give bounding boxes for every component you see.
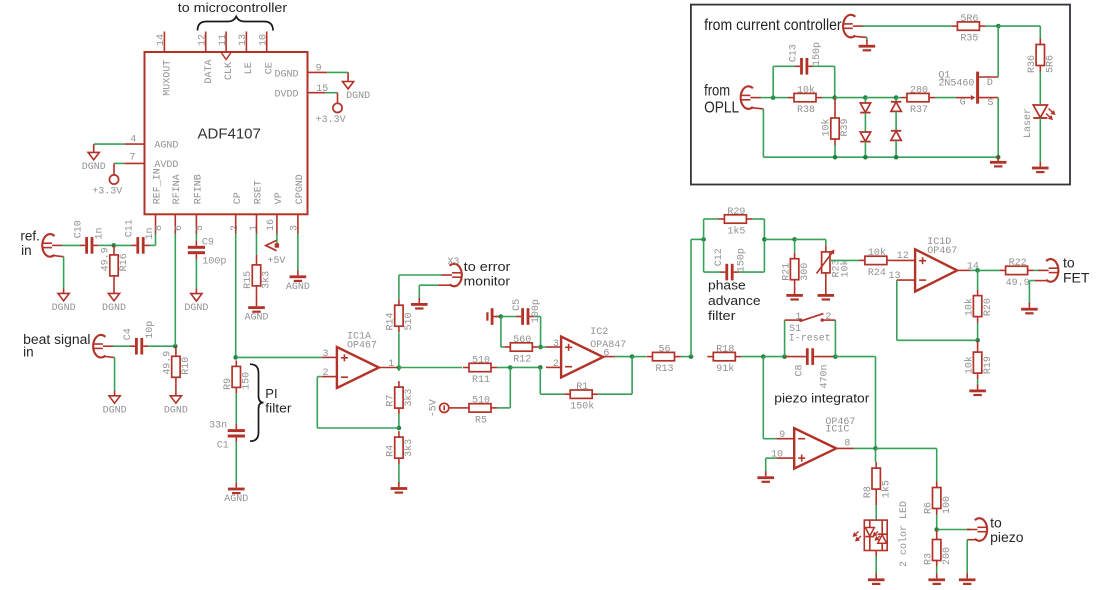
wire d2 bot [895,141,897,158]
annotation PI [265,386,277,401]
svg-text:R3: R3 [923,553,934,565]
wire laser col down [1039,26,1041,38]
transistor Q1 source lead [979,97,998,99]
lead to C8 [785,356,802,358]
wire d2a top [895,98,897,102]
svg-text:510: 510 [404,312,415,330]
svg-text:C11: C11 [125,219,136,237]
svg-text:DGND: DGND [102,303,126,314]
svg-text:5R6: 5R6 [1046,55,1057,73]
IC U1 pin label AGND [154,141,178,152]
svg-text:3: 3 [553,339,559,350]
wire R18 to C8 node [741,356,763,358]
resistor R11 [463,355,497,386]
label C8 [795,364,806,376]
wire beat node up to pin 6 [174,234,176,347]
value 100p of C5 [531,299,542,323]
IC U1 pin number 10 [259,34,270,46]
resistor R23 potentiometer [822,246,830,279]
svg-text:9: 9 [779,430,785,441]
value 100p of C9 [202,256,226,267]
wire beat shield to DGND [114,358,116,392]
IC U1 pin label CLK [224,62,235,80]
wire IC1C out [854,447,876,449]
ground AGND FET shield [1021,303,1038,315]
wire R20 to node [977,323,979,341]
resistor R39 [821,112,852,145]
resistor R1 [564,382,598,413]
svg-text:G: G [960,98,966,109]
svg-text:R21: R21 [781,263,792,281]
svg-text:MUXOUT: MUXOUT [163,60,174,96]
annotation to microcontroller [178,0,288,15]
pin label S [988,98,994,109]
wire C8 right to out column [835,356,875,358]
resistor R4 [386,431,416,464]
wire node to IC2 pin3 [541,346,546,348]
wire to diode string 2 [865,97,896,99]
lead R15 to AGND [256,292,258,302]
svg-text:R37: R37 [910,105,928,116]
wire R6 to piezo node [936,515,938,530]
svg-text:R35: R35 [960,34,978,45]
annotation ref. [20,229,40,244]
IC U1 pin number 5 [195,225,206,231]
label C5 [512,299,523,311]
IC U1 pin number 14 [156,34,167,46]
svg-text:-5V: -5V [429,399,440,417]
wire out column down [875,357,877,449]
wire R13 to node [681,356,692,358]
ground DGND below R16 [102,288,126,314]
wire R4 to AGND [398,464,400,483]
wire d1 bot [864,142,866,157]
op-amp IC2 output stub [602,356,614,358]
wire C12 left down [703,239,705,272]
wire cc shield down [866,37,868,41]
LED D1 right diode [878,520,887,550]
value 10k of R23 [840,259,852,277]
laser diode LD1 [1033,105,1047,118]
svg-text:DGND: DGND [103,405,127,416]
svg-text:10k: 10k [868,247,886,259]
wire C5 corner down [540,317,542,348]
IC U1 pin number 4 [130,135,136,146]
resistor R5 [463,396,497,427]
label 2N5460 [938,79,974,90]
svg-text:3: 3 [290,225,301,231]
wire LED gnd [875,556,877,575]
IC U1 pin label CE [265,62,276,74]
svg-text:6: 6 [174,225,185,231]
svg-text:R19: R19 [983,356,994,374]
switch S1 [785,314,836,322]
svg-text:RFINB: RFINB [193,174,204,204]
op-amp IC1D pin number 14 [967,261,979,272]
svg-text:filter: filter [708,308,736,323]
svg-text:10p: 10p [145,321,156,339]
ground DGND at pin 9 [343,77,371,103]
wire fb to R1 [540,393,564,395]
wire bottom rail [763,156,998,158]
junction IC1D out node [975,268,980,273]
annotation phase [708,277,746,292]
svg-text:10k: 10k [797,84,815,96]
wire pin16 to +5V [276,234,278,246]
svg-text:piezo integrator: piezo integrator [774,391,870,406]
op-amp IC1A pin number 1 [388,359,394,370]
IC U1 pin label REF_IN [152,168,163,204]
wire C9 to DGND [195,259,197,289]
label +3.3V left [92,187,122,198]
wire to LED box [875,505,877,520]
op-amp IC1D output stub [957,269,970,271]
svg-text:DGND: DGND [82,162,106,173]
wire laser to gnd [1039,118,1041,163]
diode D4 string2 bottom [891,131,901,141]
IC U1 pin label VP [274,192,285,204]
wire fb up [316,377,318,428]
IC U1 pin 9 stub [308,71,328,73]
resistor R14 [386,299,416,332]
op-amp IC1C output stub [837,447,854,449]
resistor R36 [1027,39,1057,74]
wire R5 to corner [497,407,510,409]
svg-text:DGND: DGND [346,91,370,102]
ground AGND piezo shield [959,573,976,585]
connector from OPLL [741,86,764,109]
svg-text:1n: 1n [95,227,106,239]
svg-text:1k5: 1k5 [727,225,745,237]
capacitor C1 [228,424,245,442]
svg-text:AGND: AGND [244,313,268,324]
lead node to R19 [977,340,979,346]
capacitor C9 [188,241,205,259]
svg-text:510: 510 [472,355,490,366]
svg-text:X3: X3 [448,257,460,268]
svg-text:R4: R4 [386,445,397,457]
resistor R7 [386,381,416,414]
IC U1 pin label CP [233,192,244,204]
ground AGND rail [990,156,1007,168]
resistor R18 [707,344,741,375]
wire ref-in to C10 [62,244,82,246]
annotation to piezo line2 [990,529,1024,545]
wire R36 to laser [1039,72,1041,105]
capacitor C10 [80,237,98,254]
svg-text:DVDD: DVDD [274,90,298,101]
lead to R15 [256,255,258,259]
wire C13 right [813,65,835,67]
svg-text:1: 1 [795,312,801,323]
svg-text:5: 5 [195,225,206,231]
svg-text:filter: filter [265,401,292,416]
svg-text:advance: advance [708,293,761,308]
wire out to R7 [398,368,400,372]
svg-text:300: 300 [800,263,811,281]
supply -5V [440,403,449,412]
lead node to R39 [834,98,836,113]
capacitor C4 [130,338,148,355]
junction C5-gnd node [499,314,504,319]
svg-text:OP467: OP467 [927,246,957,257]
annotation to FET line2 [1063,269,1090,285]
svg-text:C1: C1 [217,440,229,451]
ground AGND below R23 [818,289,835,301]
label I-reset [789,334,831,345]
op-amp IC1C pin number 9 [779,430,785,441]
ground DGND at pin 4 [82,147,106,173]
wire R14 up to X3 row [398,275,400,299]
wire R23 down [825,239,827,246]
wire phase row left [691,238,704,240]
annotation from OPLL line2 [704,100,739,117]
svg-text:CPGND: CPGND [295,174,306,204]
wire C12 left [704,271,721,273]
svg-text:R5: R5 [475,415,487,426]
junction ref node [112,243,117,248]
label X3 [448,257,460,268]
switch S1 pin 2 [825,312,831,323]
svg-text:2: 2 [553,359,559,370]
label R23 [832,259,843,277]
ground AGND at pin 3 [286,270,310,293]
lead R21 to AGND [794,286,796,290]
op-amp IC1D pin number 13 [889,271,901,282]
connector beat in [93,335,114,358]
resistor R13 [647,344,681,375]
value 470n of C8 [819,364,830,388]
svg-text:150p: 150p [736,248,747,272]
label C11 [125,219,136,237]
svg-text:13: 13 [238,34,249,46]
ground AGND X3 shield [411,298,428,310]
wire fb left [317,427,399,429]
svg-text:C13: C13 [788,44,799,62]
annotation to piezo line1 [990,514,1002,530]
svg-text:AGND: AGND [224,494,248,505]
svg-text:100p: 100p [202,256,226,267]
svg-text:C10: C10 [74,220,85,238]
wire d2 mid [895,112,897,131]
svg-text:C4: C4 [123,328,134,340]
lead node to R16 [113,245,115,249]
label +5V [267,256,285,267]
IC U1 pin number 3 [290,225,301,231]
ground AGND cc shield [859,40,876,52]
IC U1 pin number 11 [218,34,229,46]
svg-text:R8: R8 [863,486,874,498]
ground AGND below R4 [391,482,408,494]
svg-text:2 color LED: 2 color LED [898,501,910,567]
label -5V [429,399,440,417]
junction piezo node [934,527,939,532]
IC U1 pin number 16 [266,219,277,231]
svg-text:10k: 10k [821,118,833,136]
svg-text:Laser: Laser [1023,108,1034,138]
wire pin15 to +3.3V [325,92,337,94]
svg-text:R1: R1 [576,382,588,393]
svg-text:REF_IN: REF_IN [152,168,163,204]
IC U1 pin number 7 [130,152,136,163]
label C9 [202,237,214,248]
IC U1 bottom pin stub [195,214,197,234]
junction OPLL node [771,95,776,100]
ground AGND left of C5 [486,308,498,325]
svg-text:6: 6 [603,349,609,360]
wire R21 down [794,239,796,252]
wire IC1A out to R11 [399,367,462,369]
svg-text:R11: R11 [472,375,490,386]
wire C10 to node [98,244,114,246]
IC U1 bottom pin stub [256,214,258,234]
lead node to R10 [175,346,177,351]
diode D3 string2 top [891,102,901,112]
IC U1 ADF4107 body [145,52,308,214]
junction IC1A output node [397,365,402,370]
svg-text:91k: 91k [716,363,734,375]
svg-text:AGND: AGND [286,282,310,293]
capacitor C11 [132,237,150,254]
transistor Q1 2N5460 gate arrow [956,95,975,100]
value 150p of C13 [812,42,823,66]
svg-text:2N5460: 2N5460 [938,79,974,90]
transistor Q1 drain lead [979,76,998,78]
IC U1 pin label AVDD [154,160,178,171]
svg-text:1: 1 [249,225,260,231]
svg-text:10k: 10k [840,259,852,277]
svg-text:DGND: DGND [52,303,76,314]
wire out right [876,447,937,449]
svg-text:C8: C8 [795,364,806,376]
svg-text:RSET: RSET [254,180,265,204]
op-amp IC1A pin 3 stub [322,356,337,358]
wire pin10 gnd down [765,458,767,472]
annotation in line2 [23,345,34,360]
ground DGND ref shield [52,288,76,314]
wire phase row mid [764,238,794,240]
annotation from current controller [704,17,842,34]
svg-text:R22: R22 [1009,258,1027,269]
op-amp IC1C pin 9 stub [777,438,795,440]
IC U1 pin number 12 [198,34,209,46]
lead R24 to IC1D [893,259,915,261]
wire OPLL shield down [762,109,764,157]
svg-text:10: 10 [259,34,270,46]
capacitor C12 [721,264,739,281]
lead R16 to DGND [113,282,115,289]
resistor R3 [923,534,953,567]
svg-text:3: 3 [323,349,329,360]
op-amp IC1D pin number 12 [897,251,909,262]
label C13 [788,44,799,62]
wire S1 right up [834,320,836,357]
wire R37 to gate [935,97,956,99]
svg-text:510: 510 [472,396,490,407]
svg-text:49.9: 49.9 [101,247,112,271]
IC U1 pin 4 stub [125,143,145,145]
brace PI filter [250,364,264,441]
junction IC2 out node [630,354,635,359]
svg-text:DGND: DGND [164,405,188,416]
wire X3 shield down [418,285,420,299]
IC U1 pin label RFINB [193,174,204,204]
label C12 [714,248,725,266]
IC U1 pin 12 stub [205,32,207,53]
svg-text:10: 10 [771,450,783,461]
wire FET shield down [1028,281,1030,304]
label S1 [789,324,801,335]
junction R38-R39 node [832,95,837,100]
svg-text:IC1C: IC1C [825,425,849,436]
resistor R21 [781,253,811,286]
junction R21 top [792,237,797,242]
svg-text:to: to [1063,255,1075,271]
svg-text:monitor: monitor [464,274,511,289]
resistor R8 [863,462,893,498]
connector to piezo [967,518,987,541]
svg-text:3k3: 3k3 [403,389,415,407]
svg-text:PI: PI [265,386,277,401]
capacitor C8 [801,348,819,365]
wire beat to C4 [113,345,131,347]
wire pin10 across [766,457,777,459]
transistor Q1 channel bar [976,72,979,104]
op-amp IC1D OP467 [915,237,957,292]
label C4 [123,328,134,340]
svg-text:470n: 470n [819,364,830,388]
svg-text:5R6: 5R6 [960,14,978,25]
wire up to pin 8 [155,234,157,246]
IC U1 bottom pin stub [174,214,176,234]
supply +3.3V left [109,175,118,184]
svg-text:4: 4 [130,135,136,146]
wire C1 to AGND [235,442,237,483]
wire pin9 drop [762,357,764,439]
op-amp IC1A OP467 [337,332,379,388]
junction R20-R19 node [975,338,980,343]
svg-text:1: 1 [388,359,394,370]
connector from current controller [843,15,867,38]
wire node to C11 [114,244,133,246]
svg-text:R20: R20 [983,298,994,316]
annotation to FET line1 [1063,255,1075,271]
svg-text:56: 56 [658,344,670,355]
wire fb row [897,339,978,341]
svg-text:13: 13 [889,271,901,282]
op-amp IC1C OP467 [794,417,855,469]
svg-text:AGND: AGND [154,141,178,152]
lead piezo node to R3 [936,530,938,535]
svg-text:DGND: DGND [274,69,298,80]
svg-text:12: 12 [897,251,909,262]
op-amp IC1C pin 10 stub [777,457,795,459]
wire corner to R12 [501,346,504,348]
svg-text:150: 150 [242,372,253,390]
wire pin2 node down [539,367,541,394]
IC U1 pin 13 stub [245,32,247,53]
resistor R10 [163,350,193,383]
wire R29 right down [763,219,765,239]
svg-text:560: 560 [513,335,531,346]
connector to FET [1035,259,1059,282]
wire node to diodes [835,97,866,99]
junction diode string 1 top [863,95,868,100]
svg-text:3k3: 3k3 [403,439,415,457]
svg-text:phase: phase [708,277,746,292]
annotation filter [265,401,292,416]
svg-text:8: 8 [844,439,850,450]
